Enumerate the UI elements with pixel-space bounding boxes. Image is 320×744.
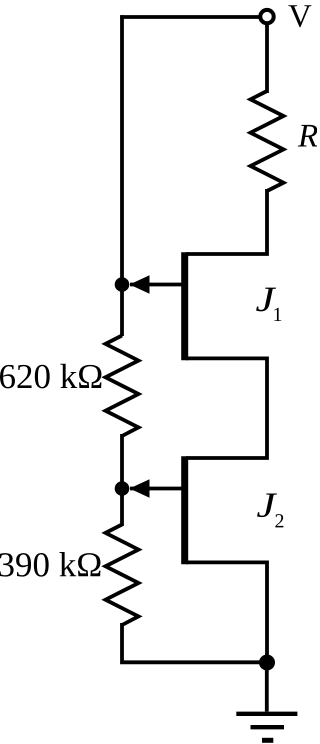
J1 gate arrowhead: [130, 275, 150, 293]
value label 620 kOhm: [0, 364, 101, 389]
wire J1 gate: [130, 283, 182, 287]
wire J2 source to ground node: [186, 562, 267, 662]
wire left rail top segment: [120, 15, 124, 336]
ground bar bottom: [262, 738, 273, 743]
J2 gate arrowhead: [130, 479, 150, 497]
ground bar top: [236, 712, 297, 716]
wire left rail bottom segment: [122, 623, 267, 662]
resistor 390 kOhm: [106, 525, 139, 626]
resistor 620 kOhm: [106, 336, 139, 437]
wire ground stem: [265, 661, 269, 712]
transistor J2 channel bar: [181, 456, 188, 564]
node dot gate J2: [115, 481, 130, 496]
wire resistor R to J1 drain: [186, 189, 267, 254]
wire top horizontal rail: [120, 15, 259, 19]
node dot ground junction: [259, 655, 275, 671]
value label R: [298, 125, 318, 147]
ground bar middle: [251, 725, 285, 729]
wire J1 source to J2 drain: [186, 358, 267, 458]
wire left rail middle segment: [120, 434, 124, 526]
wire J2 gate: [130, 487, 182, 491]
wire from V terminal to resistor R: [265, 23, 269, 93]
transistor label J1: [256, 288, 276, 312]
terminal V (open circle): [260, 10, 273, 23]
node label V: [288, 5, 311, 27]
resistor R: [251, 91, 284, 191]
node dot gate J1: [115, 277, 130, 292]
transistor label J2: [257, 493, 277, 517]
value label 390 kOhm: [0, 552, 100, 577]
transistor J1 channel bar: [181, 252, 188, 360]
